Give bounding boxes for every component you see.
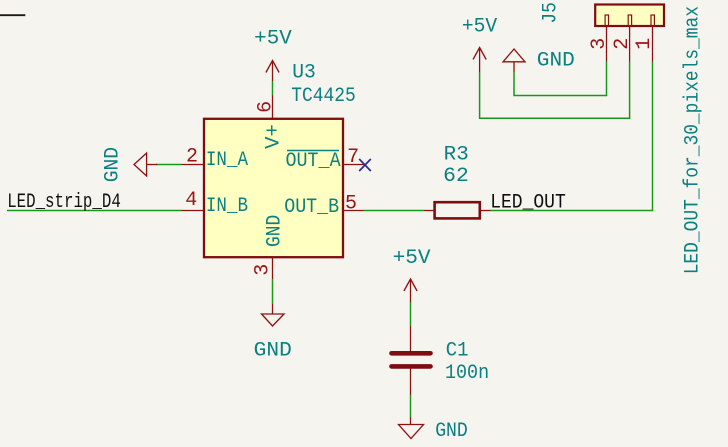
svg-text:R3: R3 [444,144,469,167]
svg-text:62: 62 [443,165,469,188]
svg-text:+5V: +5V [393,247,432,270]
svg-text:LED_strip_D4: LED_strip_D4 [7,191,121,214]
svg-text:LED_OUT: LED_OUT [490,192,566,215]
svg-text:6: 6 [255,101,278,113]
svg-text:3: 3 [588,38,611,50]
svg-text:7: 7 [347,146,359,169]
svg-text:1: 1 [633,38,656,50]
svg-text:OUT_A: OUT_A [286,150,342,173]
svg-text:GND: GND [263,215,286,247]
svg-text:OUT_B: OUT_B [284,196,339,219]
svg-text:C1: C1 [446,340,469,363]
svg-text:GND: GND [254,340,292,363]
svg-text:2: 2 [611,38,634,50]
svg-text:GND: GND [537,50,575,73]
svg-text:2: 2 [186,146,198,169]
svg-text:IN_B: IN_B [206,195,248,218]
svg-text:IN_A: IN_A [206,149,249,172]
svg-text:J5: J5 [540,2,563,23]
svg-text:GND: GND [102,147,125,182]
svg-text:4: 4 [185,189,197,212]
svg-text:TC4425: TC4425 [291,85,356,108]
svg-text:V+: V+ [262,124,285,149]
svg-text:3: 3 [252,264,275,276]
svg-text:+5V: +5V [254,28,292,51]
svg-text:GND: GND [435,420,468,443]
svg-text:U3: U3 [292,62,316,85]
svg-text:5: 5 [345,193,357,216]
svg-text:LED_OUT_for_30_pixels_max: LED_OUT_for_30_pixels_max [681,6,704,274]
svg-text:100n: 100n [445,362,489,385]
svg-text:+5V: +5V [462,16,498,39]
